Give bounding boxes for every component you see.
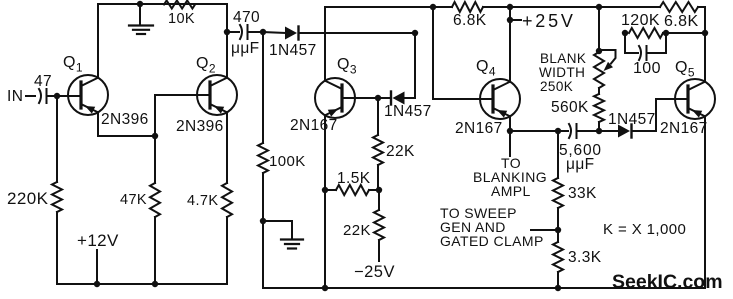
svg-text:1N457: 1N457 <box>269 42 317 59</box>
wire: Q3 base to node <box>342 97 378 99</box>
diode D3 1N457 (points right) <box>599 99 688 138</box>
svg-text:μμF: μμF <box>566 156 595 173</box>
supply +12V <box>96 250 98 284</box>
svg-text:3.3K: 3.3K <box>568 249 602 266</box>
resistor 10K <box>164 1 195 9</box>
wire: left section bottom rail <box>57 283 227 285</box>
svg-text:2N396: 2N396 <box>176 118 224 135</box>
node: junction dot top rail at ground stub <box>137 1 143 7</box>
wire: Q5 collector up <box>704 7 706 82</box>
svg-text:Q2: Q2 <box>196 55 216 76</box>
node: dot 47K on rail <box>152 281 158 287</box>
wire: Q4 base from top rail <box>433 7 493 99</box>
resistor 22K (first) <box>373 98 383 190</box>
wire: Q4 collector up to +25V rail <box>509 7 511 82</box>
resistor 560K <box>594 88 604 131</box>
wire: sweep dash <box>531 229 555 231</box>
transistor Q2 2N396 <box>197 75 237 115</box>
svg-text:2N167: 2N167 <box>660 120 708 137</box>
node: dot pot wiper tie <box>596 48 602 54</box>
capacitor C 470 μμF <box>227 25 263 39</box>
svg-text:K = X 1,000: K = X 1,000 <box>603 221 686 238</box>
wire: Q3 emitter down to rail <box>324 115 326 288</box>
node: dot 100K bottom / ground tap <box>260 218 266 224</box>
wire: Q1 collector vertical <box>97 4 99 78</box>
resistor 6.8K (second) <box>660 2 698 12</box>
node: dot Q5 collector / 120K line <box>702 30 708 36</box>
svg-text:2N167: 2N167 <box>455 120 503 137</box>
svg-text:2N167: 2N167 <box>290 117 338 134</box>
ground G1 (top left) <box>129 4 153 34</box>
svg-text:BLANK: BLANK <box>540 51 586 66</box>
svg-text:470: 470 <box>233 9 260 26</box>
node: dot sweep tap <box>555 227 561 233</box>
resistor 33K <box>553 131 563 242</box>
wire: Q1 emitter down and right <box>98 112 155 136</box>
node: dot 120K left <box>622 30 628 36</box>
svg-text:μμF: μμF <box>231 40 260 57</box>
resistor 3.3K <box>553 242 563 288</box>
resistor 1.5K <box>325 185 379 195</box>
wire: up to Q2 base <box>155 95 210 136</box>
resistor 22K (second) <box>374 190 384 261</box>
svg-text:Q3: Q3 <box>337 56 357 77</box>
wire: TO BLANKING stub <box>509 131 511 156</box>
svg-text:Q5: Q5 <box>675 59 695 80</box>
wire: pot line from top rail <box>598 7 600 52</box>
svg-text:2N396: 2N396 <box>101 111 149 128</box>
wire: Q4 emitter down <box>509 116 511 131</box>
node: junction dot 470pF right <box>260 29 266 35</box>
node: junction dot D2 top on +rail <box>412 30 418 36</box>
wire: Q3 collector up <box>324 7 326 81</box>
transistor Q1 2N396 <box>68 75 108 115</box>
svg-text:220K: 220K <box>7 189 49 208</box>
svg-text:AMPL: AMPL <box>491 183 531 199</box>
svg-text:560K: 560K <box>551 99 589 116</box>
node: dot 1.5K right / 22K junction <box>376 187 382 193</box>
transistor Q3 2N167 (mirrored) <box>315 78 355 118</box>
node: junction dot at 470pF left <box>224 29 230 35</box>
transistor Q4 2N167 <box>480 79 520 119</box>
svg-text:1N457: 1N457 <box>608 111 656 128</box>
svg-text:22K: 22K <box>386 143 415 160</box>
resistor 6.8K (first) <box>452 2 483 12</box>
diode D1 1N457 <box>263 27 415 40</box>
svg-text:22K: 22K <box>343 222 371 239</box>
svg-text:1N457: 1N457 <box>384 103 432 120</box>
node: dot pot top on rail <box>596 4 602 10</box>
resistor 100K <box>258 32 268 221</box>
svg-text:GATED CLAMP: GATED CLAMP <box>440 233 544 249</box>
svg-text:250K: 250K <box>540 79 573 94</box>
wire: emitter line right <box>510 130 568 132</box>
svg-text:IN: IN <box>7 88 23 105</box>
resistor 120K <box>629 28 663 38</box>
wire: left section top rail <box>98 3 227 5</box>
capacitor C 5600 μμF <box>569 124 599 138</box>
node: dot 33K top <box>555 128 561 134</box>
svg-text:1.5K: 1.5K <box>337 170 371 187</box>
svg-text:10K: 10K <box>168 11 195 27</box>
svg-text:6.8K: 6.8K <box>664 13 699 30</box>
node: dot 560K bottom <box>596 128 602 134</box>
capacitor C 100 (parallel with 120K) <box>625 33 666 60</box>
svg-text:33K: 33K <box>568 185 597 202</box>
wire: 100K line to bottom rail <box>262 221 264 288</box>
svg-text:6.8K: 6.8K <box>453 12 487 29</box>
wire: 120K right to Q5 collector line <box>663 32 705 34</box>
wire: Q5 emitter down to rail <box>704 116 706 288</box>
node: junction dot Q4 emitter <box>507 128 513 134</box>
ground G2 (middle) <box>263 221 303 249</box>
node: junction dot Q1 emitter / 47K / Q2 base <box>152 133 158 139</box>
node: dot Q4 base tap on top rail <box>430 4 436 10</box>
node: junction dot Q1 base <box>54 93 60 99</box>
svg-text:47: 47 <box>34 73 52 90</box>
svg-text:+25V: +25V <box>522 11 576 31</box>
resistor 4.7K (Q2 emitter) <box>222 112 232 284</box>
svg-text:+12V: +12V <box>77 231 119 250</box>
node: dot 3.3K bottom rail <box>555 285 561 291</box>
svg-text:100K: 100K <box>269 153 306 170</box>
wire: main bottom rail <box>263 287 705 289</box>
svg-text:4.7K: 4.7K <box>187 193 218 209</box>
svg-text:100: 100 <box>633 60 661 77</box>
node: dot +12V on rail <box>94 281 100 287</box>
svg-text:Q1: Q1 <box>63 54 83 75</box>
svg-text:SeekIC.com: SeekIC.com <box>612 271 723 293</box>
node: dot Q4 collector on top rail <box>507 4 513 10</box>
svg-text:120K: 120K <box>621 12 660 29</box>
svg-text:47K: 47K <box>120 192 147 208</box>
wire: top rail middle <box>483 6 660 8</box>
node: junction dot Q3 base <box>375 95 381 101</box>
svg-text:Q4: Q4 <box>476 58 496 79</box>
capacitor C 47 (input) <box>39 89 81 103</box>
node: dot +25V tick <box>507 17 513 23</box>
node: dot 120K right <box>663 30 669 36</box>
wire: top rail right corner <box>698 6 705 8</box>
svg-text:−25V: −25V <box>354 263 395 281</box>
wire: IN dash <box>26 95 35 97</box>
node: dot 1.5K left on Q3 emitter line <box>322 187 328 193</box>
resistor 47K <box>150 136 160 284</box>
resistor 220K <box>52 96 62 284</box>
node: dot Q3 emitter on bottom rail <box>322 285 328 291</box>
supply +25V <box>510 19 521 21</box>
wire: Q2 collector vertical <box>226 32 228 78</box>
potentiometer BLANK WIDTH 250K <box>594 50 616 88</box>
transistor Q5 2N167 <box>675 79 715 119</box>
svg-text:WIDTH: WIDTH <box>539 65 585 80</box>
diode D2 1N457 (points left) <box>378 33 415 105</box>
wire: right section top rail <box>325 6 452 8</box>
wire: corner down to 470pF node <box>226 4 228 32</box>
